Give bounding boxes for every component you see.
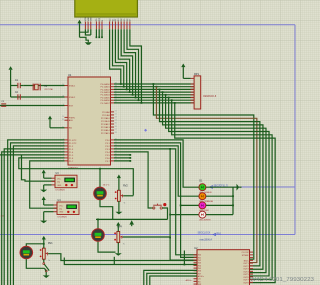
wire P3.3 to LED D4 and U2 branch (114, 148, 199, 260)
wire LCD VSS/VEE to rail (85, 29, 90, 35)
wire bus P0 to U2 via right side bundle (153, 83, 276, 283)
svg-text:exec19.HL4: exec19.HL4 (200, 239, 213, 241)
svg-text:OUT6: OUT6 (243, 277, 249, 279)
svg-text:P0.4/AD4: P0.4/AD4 (101, 94, 111, 97)
power symbol for RV4 (116, 222, 120, 232)
origin marker blue diamond (144, 129, 147, 132)
svg-text:P0.3/AD3: P0.3/AD3 (101, 91, 111, 94)
svg-text:P2.1/A9: P2.1/A9 (102, 114, 110, 117)
wire LED D4 cathode (206, 214, 233, 216)
svg-text:P0.2/AD2: P0.2/AD2 (101, 88, 111, 91)
power symbol for crystal rail (9, 66, 13, 97)
wire U2 lower-left corner 2 (147, 273, 197, 285)
wire RST row (0, 105, 65, 107)
svg-text:P2.2/A10: P2.2/A10 (101, 117, 111, 120)
svg-text:P2.0/A8: P2.0/A8 (102, 111, 110, 114)
LCD display LCD1 body (75, 0, 138, 17)
svg-text:RV1: RV1 (48, 242, 53, 245)
svg-text:CRYSTAL: CRYSTAL (44, 88, 54, 91)
microcontroller U1 AT89C51 body (68, 77, 111, 165)
push button left lead (152, 207, 154, 209)
svg-text:OUT4: OUT4 (243, 271, 249, 273)
svg-text:ADS b: ADS b (198, 275, 205, 278)
svg-text:28: 28 (115, 132, 117, 134)
wire bus P1.0-P1.5 staircase to bottom (0, 140, 65, 285)
wire P1.5 branch to U3 DQ (22, 155, 55, 181)
svg-text:D0: D0 (109, 19, 111, 21)
capacitor C1 (11, 83, 24, 88)
LCD pin name labels (85, 17, 132, 22)
blue terminal arrow marker (210, 186, 213, 189)
svg-text:29: 29 (62, 116, 64, 118)
svg-text:D5: D5 (124, 19, 126, 21)
svg-text:P0.1/AD1: P0.1/AD1 (101, 86, 111, 89)
svg-text:RST: RST (69, 105, 74, 107)
resistor pack RP1 RESPACK-8 body (194, 76, 201, 109)
svg-text:VDD: VDD (88, 17, 90, 22)
svg-text:OUT7: OUT7 (243, 280, 249, 282)
crystal X1 (33, 84, 40, 91)
wire P3.4 to push button (114, 152, 152, 208)
svg-text:LED-WHITE: LED-WHITE (199, 219, 211, 221)
svg-text:30: 30 (62, 119, 64, 121)
svg-text:OUT1: OUT1 (243, 263, 249, 265)
U2 right pin stubs and names (242, 252, 253, 284)
svg-text:24: 24 (115, 120, 117, 122)
LED D3 LED-PINK (199, 202, 209, 212)
svg-text:D7: D7 (130, 19, 132, 21)
wire gauge A top to P1.6 run (99, 168, 101, 187)
svg-text:RN1: RN1 (217, 234, 222, 236)
wire bus LCD D0-D7 staircase to P0 bus (110, 29, 143, 104)
wire stub P3.6 with dot (114, 157, 131, 159)
ground symbol for U4 (40, 212, 53, 224)
svg-text:OUT2: OUT2 (243, 266, 249, 268)
wire P3.1 to LED D3 and U2 (114, 143, 199, 258)
svg-text:PSEN: PSEN (69, 117, 75, 119)
svg-text:GND: GND (59, 212, 64, 214)
wire stub P3.5 with dot (114, 154, 131, 156)
svg-text:XTAL1: XTAL1 (69, 84, 76, 87)
svg-text:RW: RW (99, 18, 101, 21)
wire RV2 wiper row (123, 195, 133, 197)
wire LED D3 cathode (206, 205, 234, 207)
wire gauge B top (97, 219, 99, 229)
analog sensor gauge for RV2 channel (94, 187, 107, 200)
power symbol on EA net (48, 116, 52, 120)
wire XTAL2 row (11, 96, 65, 98)
svg-text:OUT5: OUT5 (243, 274, 249, 276)
svg-text:VEE: VEE (91, 17, 93, 22)
wire ground riser from row264 (113, 257, 115, 265)
wire U2 lower-left corner 3 (150, 276, 197, 285)
svg-text:U1: U1 (68, 73, 72, 77)
wire VCC line y219 (96, 218, 168, 220)
potentiometer RV2 (115, 184, 129, 204)
svg-text:P2.7/A15: P2.7/A15 (101, 132, 111, 135)
potentiometer RV4 (114, 226, 125, 246)
analog sensor gauge for RV1 channel (20, 246, 33, 259)
svg-text:21: 21 (115, 111, 117, 113)
potentiometer RV1 (40, 242, 54, 262)
wire gauge C bottom (26, 259, 44, 268)
temperature sensor U3 DS18B20 (52, 172, 78, 192)
svg-text:26.0°C: 26.0°C (103, 185, 110, 187)
wire LED cathode bus vertical (232, 187, 234, 214)
wire XTAL1 row (23, 85, 64, 87)
RP1 pin stubs (191, 78, 195, 103)
power symbol for U4 (42, 196, 54, 205)
wire RV1 wiper route to U2 (48, 254, 197, 261)
ground symbol sideways right of LEDs (237, 184, 242, 191)
LED D2 LED-ORANGE (199, 193, 214, 203)
svg-text:27: 27 (115, 129, 117, 131)
wire push button to VCC line (162, 208, 167, 219)
svg-text:XTAL2: XTAL2 (69, 96, 76, 99)
svg-text:RESPACK-8: RESPACK-8 (203, 95, 217, 98)
wire LED D1 cathode to ground (206, 186, 237, 188)
capacitor C3 on RST (1, 104, 6, 106)
power symbol for U3 (42, 170, 52, 179)
svg-text:22: 22 (115, 114, 117, 116)
wire RS stub with junction dot (96, 29, 98, 38)
wire EA to power arrow (50, 119, 65, 127)
switch SW1 lever (43, 263, 49, 272)
wire LED D2 cathode (206, 195, 234, 197)
U1 left pins XTAL1 XTAL2 RST PSEN ALE EA P1.0-P1.7 (62, 84, 77, 163)
power symbol below VCC line (129, 220, 134, 226)
power symbol VCC for RP1 (181, 64, 190, 79)
power symbol for RV2 (117, 175, 121, 191)
blue selection-box bottom edge segment (213, 186, 295, 188)
svg-text:D2: D2 (115, 19, 117, 21)
wire E stub with junction dot (101, 29, 103, 38)
wire P1.6 long run to RV2 wiper (19, 158, 134, 196)
wire RW stub with junction dot (98, 29, 100, 38)
svg-text:RP1: RP1 (194, 73, 199, 76)
temperature sensor U4 DS18B20 (54, 199, 80, 219)
ground symbol below LCD (85, 42, 92, 45)
svg-text:W4D4 0201_79930223: W4D4 0201_79930223 (250, 277, 314, 283)
push button SW body (153, 203, 167, 209)
svg-text:ADS b: ADS b (186, 279, 193, 282)
svg-text:BIDC: BIDC (244, 260, 249, 262)
wire RV4 bottom to ground (115, 243, 122, 256)
svg-text:P0.5/AD5: P0.5/AD5 (101, 96, 111, 99)
svg-text:SEGCLOCK: SEGCLOCK (198, 233, 211, 235)
svg-text:P2.3/A11: P2.3/A11 (101, 120, 110, 123)
svg-text:P2.6/A14: P2.6/A14 (101, 129, 111, 132)
wire U2 lower-left corner 1 (144, 270, 197, 285)
blue terminal arrow marker 2 (213, 233, 216, 235)
svg-text:D6: D6 (127, 19, 129, 21)
U2 left pin stubs and names (194, 255, 205, 285)
power symbol for RV1 (42, 236, 46, 248)
svg-text:P1.1/T2: P1.1/T2 (69, 143, 77, 145)
ground symbol for U3 (40, 185, 51, 192)
LCD pin stubs (85, 22, 129, 30)
wire gauge B bottom (98, 242, 116, 253)
svg-text:23: 23 (115, 117, 117, 119)
wire rail to ground jog (80, 37, 89, 42)
svg-text:GND: GND (57, 185, 62, 187)
blue selection-box right edge (294, 25, 296, 235)
analog sensor gauge for RV4 channel (92, 228, 105, 241)
wire stub P3.7 with dot (114, 160, 131, 162)
svg-text:D3: D3 (118, 19, 120, 21)
svg-text:CLOCK: CLOCK (242, 252, 250, 254)
wire RV1 aux route row264 (64, 258, 197, 265)
svg-text:D1: D1 (112, 19, 114, 21)
U1 right pins P0 P2 P3 (101, 83, 117, 163)
svg-text:RV2: RV2 (123, 184, 128, 187)
power symbol VCC for LCD (77, 20, 81, 38)
wire U2 pin5 with dot (184, 251, 186, 266)
wire RV1 bottom to switch (43, 259, 45, 263)
wire bus P0.0-P0.7 rows to RP1 (114, 84, 194, 103)
IC U2 body (197, 250, 250, 285)
svg-text:ALE: ALE (69, 119, 74, 122)
wire P1.7 to U4 DQ (30, 161, 65, 208)
wire P3.0 to LED D1 (114, 140, 199, 187)
svg-text:OUT8: OUT8 (243, 282, 249, 284)
blue selection-box top edge (0, 24, 295, 26)
svg-text:P0.0/AD0: P0.0/AD0 (101, 83, 111, 86)
blue horizontal line lower (0, 234, 295, 236)
svg-text:P2.4/A12: P2.4/A12 (101, 123, 111, 126)
svg-text:P0.6/AD6: P0.6/AD6 (101, 99, 111, 102)
wire gauge C top (26, 243, 44, 246)
capacitor C2 (18, 94, 20, 99)
wire P3.2 to LED D2 (114, 146, 199, 196)
svg-text:STMEF: STMEF (242, 255, 250, 257)
wire RV4 wiper to U2 bus (123, 236, 170, 238)
wire RV2 bottom to ground (115, 201, 122, 214)
svg-text:OUT3: OUT3 (243, 269, 249, 271)
label X1 CRYSTAL (44, 86, 54, 91)
LED D4 LED-WHITE (199, 211, 211, 221)
svg-text:P2.5/A13: P2.5/A13 (101, 126, 111, 129)
svg-text:P1.0/T2: P1.0/T2 (69, 140, 77, 142)
svg-text:DS18B20: DS18B20 (56, 190, 66, 192)
LED D1 LED-GREEN (199, 184, 212, 194)
svg-text:25: 25 (115, 123, 117, 125)
wire gauge A bottom loop (100, 200, 113, 219)
wire VDD jog (80, 29, 89, 32)
wire switch to ground (43, 268, 50, 278)
svg-text:P0.7/AD7: P0.7/AD7 (101, 102, 111, 105)
svg-text:26: 26 (115, 126, 117, 128)
svg-text:DS18B20: DS18B20 (58, 217, 68, 219)
